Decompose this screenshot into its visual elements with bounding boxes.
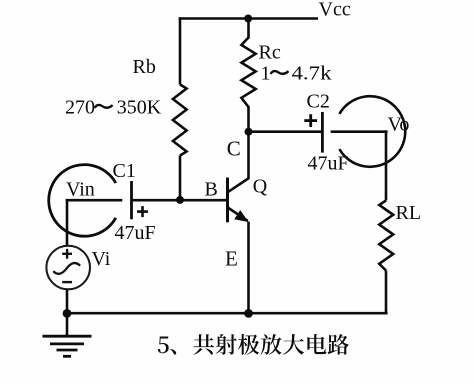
caption 5、共射极放大电路 — [158, 334, 349, 355]
C2 polarity plus — [304, 114, 317, 127]
Vi source circle — [46, 246, 90, 290]
svg-text:350K: 350K — [117, 97, 162, 119]
capacitor C2 plate — [321, 112, 324, 153]
node junction ground — [63, 309, 72, 318]
transistor emitter arrowhead — [234, 210, 248, 222]
node junction top rail to Rc — [244, 15, 252, 23]
svg-text:RL: RL — [396, 202, 422, 224]
svg-text:Vcc: Vcc — [319, 0, 351, 20]
wire RL bottom lead — [385, 271, 388, 315]
resistor RL — [379, 201, 393, 271]
wire emitter vertical — [247, 222, 250, 314]
Rc value label 1~4.7k — [261, 63, 332, 85]
wire base horizontal — [132, 199, 227, 202]
svg-text:E: E — [225, 247, 238, 271]
wire Vcc top rail — [179, 17, 318, 20]
Vi sine wave — [53, 263, 80, 274]
Rb value label 270~350K — [65, 97, 162, 119]
wire Vin to C1 — [66, 199, 123, 202]
svg-text:Vi: Vi — [92, 248, 111, 270]
wire C2 to output — [331, 130, 388, 133]
wire Rb bottom lead — [179, 156, 182, 200]
Vin source circle — [49, 165, 116, 237]
svg-text:B: B — [205, 178, 218, 200]
wire collector to C2 — [249, 130, 323, 133]
resistor Rc — [241, 38, 255, 108]
node junction base — [176, 196, 184, 204]
Vi minus sign — [62, 281, 72, 283]
wire Vin down to Vi — [66, 199, 69, 246]
svg-text:C1: C1 — [113, 160, 136, 182]
svg-text:Rb: Rb — [133, 56, 156, 78]
wire bottom rail — [66, 312, 388, 315]
svg-text:Rc: Rc — [259, 41, 281, 63]
wire Rc top lead — [247, 17, 250, 38]
svg-text:Q: Q — [253, 176, 268, 198]
C1 polarity plus — [137, 206, 148, 217]
svg-text:Vin: Vin — [66, 178, 95, 200]
node junction collector C — [245, 128, 253, 136]
svg-text:47uF: 47uF — [115, 222, 156, 244]
wire Rb top lead — [179, 17, 182, 84]
svg-text:4.7k: 4.7k — [292, 63, 332, 85]
svg-text:Vo: Vo — [388, 113, 410, 135]
resistor Rb — [173, 85, 187, 156]
capacitor C1 plate — [130, 181, 133, 219]
wire Vi bottom lead — [66, 289, 69, 336]
svg-text:C2: C2 — [307, 90, 330, 112]
svg-text:1: 1 — [261, 63, 271, 85]
transistor Q1 base bar — [226, 178, 229, 223]
node junction emitter bottom — [244, 309, 253, 318]
Vo source circle — [339, 96, 405, 167]
transistor emitter diagonal with arrow — [228, 208, 248, 221]
wire RL top lead — [385, 130, 388, 200]
transistor collector diagonal — [228, 178, 249, 192]
Vi plus sign — [62, 249, 72, 259]
ground symbol — [43, 336, 92, 356]
svg-text:270: 270 — [65, 97, 95, 119]
svg-text:C: C — [227, 137, 241, 161]
wire Rc bottom lead / collector vertical — [247, 106, 250, 179]
